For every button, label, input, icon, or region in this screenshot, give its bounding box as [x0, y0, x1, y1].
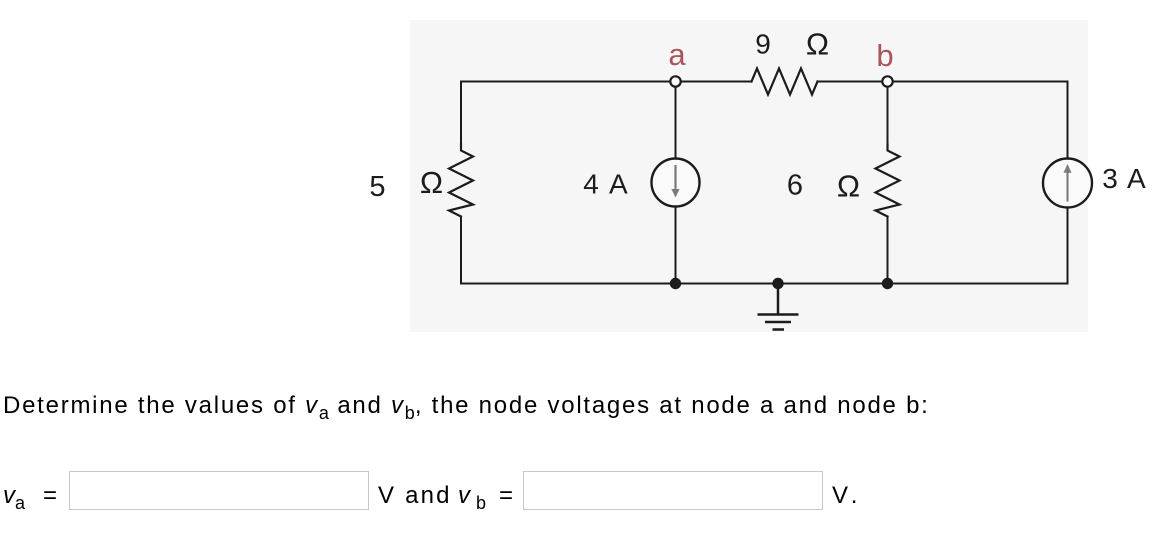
arrow of 4A source (down): [671, 165, 679, 198]
answer row: [3, 482, 57, 514]
current source I1 4A circle: [652, 159, 700, 207]
current source I2 3A circle: [1043, 159, 1092, 208]
wire node a down to 4A source: [675, 88, 677, 159]
svg-text:Ω: Ω: [837, 169, 860, 204]
wire 4A source to bottom rail: [675, 207, 677, 284]
junction dot below node a: [670, 278, 681, 289]
wire top rail left: corner to node a: [461, 82, 670, 145]
circuit schematic image block: [0, 0, 1170, 400]
wire node b to top-right corner and down to 3A source: [894, 82, 1068, 159]
svg-text:4 A: 4 A: [583, 169, 628, 200]
wire left branch bottom: [461, 217, 670, 284]
svg-text:5: 5: [369, 171, 385, 203]
resistor R1 5 ohm zigzag (left branch): [449, 145, 473, 217]
image background: [410, 20, 1088, 332]
question text: [3, 392, 930, 424]
svg-text:6: 6: [787, 170, 803, 202]
wire 6-ohm to bottom rail: [887, 217, 889, 284]
node b terminal circle: [882, 76, 892, 86]
junction dot below node b: [882, 278, 893, 289]
svg-text:Ω: Ω: [420, 165, 443, 200]
arrow of 3A source (up): [1064, 164, 1072, 202]
wire node a to 9-ohm resistor: [682, 81, 752, 83]
wire node b down to 6-ohm resistor: [887, 88, 889, 145]
wire bottom rail middle: [676, 283, 888, 285]
ground symbol: [758, 284, 799, 330]
wire bottom rail right: [888, 208, 1068, 284]
svg-text:b: b: [876, 38, 893, 73]
resistor R2 6 ohm zigzag (middle branch): [876, 145, 900, 217]
svg-text:9: 9: [755, 29, 771, 60]
junction dot at ground: [772, 278, 783, 289]
wire 9-ohm to node b: [818, 81, 882, 83]
node a terminal circle: [670, 76, 680, 86]
svg-text:3 A: 3 A: [1102, 163, 1146, 194]
svg-text:Ω: Ω: [806, 27, 829, 62]
input box for vb: [523, 471, 823, 510]
resistor R 9 ohm zigzag: [752, 69, 818, 95]
svg-text:a: a: [668, 37, 686, 72]
input box for va: [69, 471, 369, 510]
